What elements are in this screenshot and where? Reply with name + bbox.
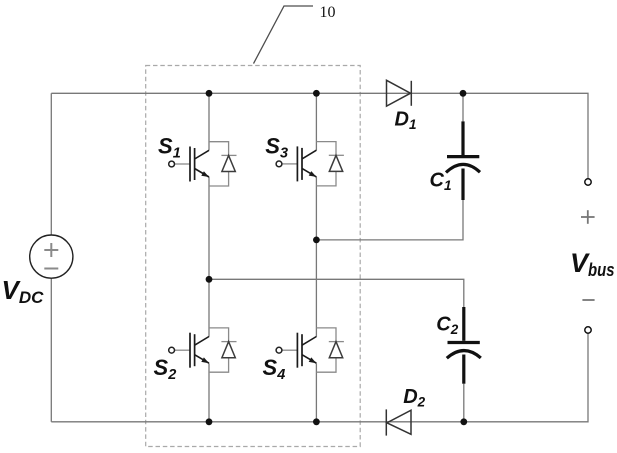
- svg-text:Vbus: Vbus: [570, 248, 615, 280]
- svg-text:VDC: VDC: [2, 275, 45, 307]
- svg-text:S2: S2: [154, 355, 177, 383]
- svg-text:C2: C2: [436, 313, 458, 337]
- svg-text:S3: S3: [265, 134, 288, 162]
- svg-text:C1: C1: [430, 170, 452, 194]
- svg-text:S4: S4: [263, 355, 286, 383]
- svg-text:D2: D2: [403, 386, 425, 410]
- svg-text:10: 10: [320, 4, 336, 21]
- svg-text:S1: S1: [158, 133, 181, 161]
- svg-text:D1: D1: [395, 109, 417, 133]
